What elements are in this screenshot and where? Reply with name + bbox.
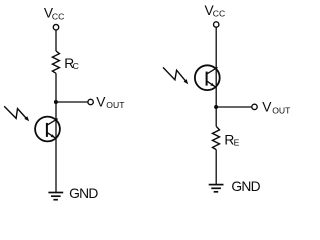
svg-text:CC: CC	[213, 9, 225, 19]
svg-text:V: V	[262, 100, 272, 115]
svg-text:OUT: OUT	[272, 106, 291, 116]
svg-text:CC: CC	[52, 11, 64, 21]
svg-text:C: C	[73, 61, 79, 71]
svg-text:V: V	[96, 94, 106, 109]
svg-text:OUT: OUT	[106, 100, 125, 110]
svg-text:E: E	[234, 138, 240, 148]
svg-text:GND: GND	[231, 179, 260, 194]
svg-text:GND: GND	[69, 186, 98, 201]
